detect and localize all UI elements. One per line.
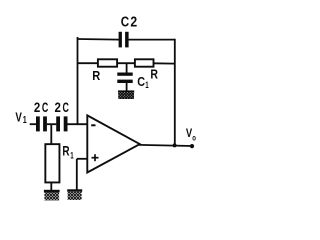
ground at noninverting input — [67, 189, 82, 200]
label R1 — [62, 142, 74, 161]
svg-text:C: C — [137, 74, 145, 89]
svg-text:1: 1 — [145, 80, 149, 91]
label C2 — [121, 15, 138, 31]
op-amp U1 — [87, 115, 140, 172]
wire row2 left — [78, 62, 99, 64]
resistor R (right) — [135, 59, 154, 66]
svg-text:R: R — [150, 68, 158, 82]
plus sign — [92, 154, 99, 161]
wire plus input stem to ground — [76, 159, 78, 190]
label V1 — [15, 110, 27, 126]
svg-text:V: V — [15, 110, 22, 124]
wire input from V1 — [30, 123, 37, 125]
svg-text:C: C — [42, 100, 49, 115]
capacitor 2C (second) — [56, 116, 67, 131]
wire row2 middle — [117, 62, 135, 64]
wire row2 right — [154, 62, 175, 64]
wire input to op-amp — [67, 123, 87, 125]
wire C1 top stub — [126, 63, 128, 73]
svg-text:C: C — [121, 15, 130, 31]
capacitor 2C (first) — [36, 116, 47, 131]
wire left vertical — [77, 37, 79, 125]
wire R1 stem — [50, 124, 52, 144]
resistor R (left) — [98, 59, 117, 66]
capacitor C1 — [117, 73, 132, 84]
resistor R1 — [45, 144, 59, 182]
node output terminal — [190, 144, 194, 148]
svg-text:1: 1 — [23, 115, 27, 126]
wire top right segment — [128, 39, 175, 41]
svg-text:R: R — [62, 142, 69, 158]
svg-text:2: 2 — [55, 100, 61, 115]
label 2C (second) — [55, 100, 70, 115]
wire R1 to ground — [50, 183, 52, 191]
wire top left segment — [78, 38, 120, 41]
wire noninverting input — [77, 158, 88, 160]
capacitor C2 — [119, 32, 129, 48]
svg-text:2: 2 — [34, 100, 40, 115]
label C1 — [137, 74, 149, 91]
svg-text:R: R — [92, 69, 100, 83]
label Vo — [186, 128, 196, 143]
wire C1 bottom stub — [126, 83, 128, 91]
minus sign — [91, 124, 95, 126]
label 2C (first) — [34, 100, 49, 115]
ground under R1 — [44, 190, 60, 201]
svg-text:o: o — [192, 133, 196, 143]
wire right vertical — [174, 39, 176, 146]
wire output — [139, 145, 192, 146]
svg-text:1: 1 — [70, 150, 74, 161]
wire between 2C caps — [47, 123, 57, 125]
ground under C1 — [118, 90, 134, 99]
svg-text:C: C — [63, 100, 70, 115]
node feedback junction — [173, 143, 177, 147]
svg-text:2: 2 — [130, 15, 137, 31]
